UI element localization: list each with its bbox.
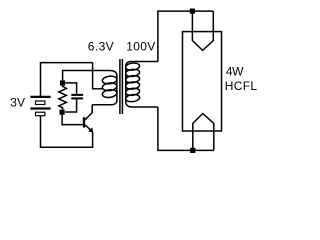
wire secondary bottom to lamp: [158, 107, 214, 150]
wire battery + top rail: [41, 63, 93, 96]
svg-text:6.3V: 6.3V: [88, 40, 114, 54]
wire base of Q1: [62, 115, 83, 125]
transformer T1 secondary loops: [125, 62, 140, 102]
capacitor C1 bottom lead: [65, 99, 76, 112]
wire primary feedback end to base network: [63, 71, 110, 81]
lamp top electrode: [192, 11, 213, 50]
transformer T1 primary loops: [102, 75, 117, 98]
wire battery - bottom rail to emitter: [41, 116, 93, 148]
svg-text:4W: 4W: [226, 65, 244, 79]
wire secondary top to lamp: [158, 11, 213, 61]
lamp bottom electrode: [193, 114, 214, 151]
transistor Q1: [84, 105, 93, 133]
resistor R1: [59, 86, 67, 110]
node junction square bottom of R1/C1: [60, 110, 65, 115]
capacitor C1: [71, 95, 83, 99]
lamp tube 4W HCFL: [183, 32, 222, 131]
transformer T1 core: [120, 59, 123, 114]
svg-text:100V: 100V: [126, 40, 155, 54]
transformer T1 secondary winding: [126, 62, 158, 108]
node junction square top of R1/C1: [60, 80, 65, 85]
node junction square lamp top: [190, 9, 195, 14]
battery B1: [30, 97, 50, 116]
node junction square lamp bottom: [190, 148, 195, 153]
capacitor C1 top lead: [65, 83, 76, 94]
svg-text:HCFL: HCFL: [225, 79, 258, 93]
transformer T1 primary lead path (top lead, right side, bottom lead to collector): [92, 71, 117, 105]
svg-text:3V: 3V: [10, 96, 25, 110]
wire battery + to transformer primary center tap: [93, 63, 103, 89]
